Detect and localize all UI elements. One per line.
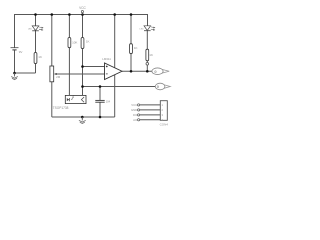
svg-text:LED: LED [28, 29, 33, 31]
svg-text:2M: 2M [56, 75, 61, 79]
svg-text:1K: 1K [134, 46, 138, 50]
svg-text:9V: 9V [19, 50, 23, 54]
svg-text:VCC: VCC [79, 6, 86, 10]
svg-text:LM311: LM311 [102, 57, 111, 61]
svg-text:GND: GND [131, 108, 137, 112]
svg-text:LED: LED [140, 29, 145, 31]
svg-text:CON4: CON4 [160, 123, 169, 127]
svg-text:TSOP1738: TSOP1738 [53, 106, 69, 110]
svg-text:VCC: VCC [131, 103, 137, 107]
svg-text:1K: 1K [149, 53, 153, 57]
svg-text:10K: 10K [72, 41, 77, 45]
svg-text:1K: 1K [86, 40, 90, 44]
svg-text:1K: 1K [38, 55, 42, 59]
svg-text:104: 104 [106, 99, 111, 103]
